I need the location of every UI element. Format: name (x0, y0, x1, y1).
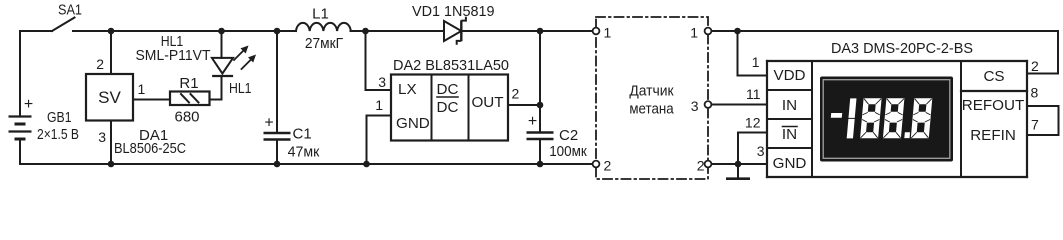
svg-text:1: 1 (138, 81, 146, 97)
svg-text:DC: DC (437, 81, 459, 98)
svg-text:DA2 BL8531LA50: DA2 BL8531LA50 (393, 57, 509, 74)
svg-text:GB1: GB1 (47, 109, 72, 126)
display digit 8 (second) (883, 98, 904, 138)
wire: top rail from L1 to VD1 anode (351, 30, 445, 32)
LED HL1 (221, 31, 223, 58)
svg-text:DA3 DMS-20PC-2-BS: DA3 DMS-20PC-2-BS (831, 40, 973, 57)
svg-text:HL1: HL1 (229, 80, 252, 97)
wire: sensor pin2 right to GND pin 3 (712, 163, 768, 165)
inductor L1 (296, 23, 351, 31)
wire: DA3 top edge and CS loop (738, 31, 1059, 74)
svg-text:2×1.5 В: 2×1.5 В (37, 126, 79, 143)
svg-text:+: + (24, 96, 33, 113)
node: LED junction on top rail (218, 28, 225, 35)
IC DA1 box (86, 74, 133, 121)
wire: GND pin 1 of DA2 down to bottom rail (367, 116, 392, 165)
svg-text:12: 12 (745, 115, 761, 131)
svg-text:11: 11 (746, 86, 761, 102)
switch SA1 blade (52, 18, 75, 32)
DA3 left pin cell dividers (767, 89, 812, 91)
IC DA2 box (391, 75, 508, 141)
wire: sensor pin1 right to DA3 (712, 30, 738, 32)
svg-text:метана: метана (629, 101, 674, 118)
7-seg digits -188.8 (829, 98, 932, 138)
svg-text:2: 2 (1031, 58, 1039, 74)
display digit 1 (848, 98, 856, 118)
DC/DC fraction line (437, 96, 458, 98)
svg-text:1: 1 (690, 25, 698, 41)
node: junction top rail at DA2 LX column (362, 28, 369, 35)
display minus sign (831, 113, 842, 118)
resistor R1 power marks (181, 94, 189, 103)
sensor terminal 1 left (593, 28, 600, 35)
node: OUT junction (537, 102, 544, 109)
svg-text:VD1 1N5819: VD1 1N5819 (412, 3, 495, 20)
capacitor C2 (539, 31, 541, 132)
wire: DA2 OUT pin 2 to C2 node (508, 104, 540, 106)
capacitor C1 (276, 31, 278, 132)
svg-text:SA1: SA1 (58, 2, 82, 19)
diode VD1 (Schottky) (444, 21, 461, 41)
sensor terminal 3 right (705, 101, 712, 108)
svg-text:LX: LX (398, 81, 417, 98)
svg-text:IN: IN (782, 126, 797, 143)
IN-bar overline (783, 126, 798, 128)
svg-text:DC: DC (437, 99, 459, 116)
LED emission arrows (234, 46, 256, 70)
node: ground junction (735, 161, 742, 168)
svg-text:3: 3 (757, 143, 765, 159)
ground symbol (737, 164, 739, 178)
svg-text:GND: GND (396, 115, 430, 132)
svg-text:+: + (264, 115, 273, 132)
svg-text:1: 1 (752, 54, 760, 70)
node: junction VDD/CS feed (734, 28, 741, 35)
svg-text:2: 2 (604, 158, 612, 174)
wire: IN-bar pin 12 (738, 133, 767, 165)
sensor terminal 2 right (705, 161, 712, 168)
svg-text:3: 3 (691, 98, 699, 114)
wire: R1 to LED cathode (210, 77, 222, 99)
svg-text:SML-P11VT: SML-P11VT (136, 47, 211, 64)
wire: DA1 pin 3 vertical (110, 121, 112, 165)
wire: LX vertical from top rail (366, 31, 392, 90)
svg-text:680: 680 (174, 109, 199, 126)
node: DA1 pin2 junction on top rail (108, 28, 115, 35)
DA3 CS cell divider (961, 90, 1027, 92)
svg-text:1: 1 (604, 25, 612, 41)
wire: bottom rail from battery to sensor terminal 2 (20, 163, 593, 165)
methane sensor dashed box (596, 17, 708, 179)
svg-text:3: 3 (378, 74, 386, 90)
svg-text:SV: SV (98, 88, 121, 107)
wire: VDD pin 1 (738, 31, 768, 76)
display digit 8 (third) (911, 98, 932, 138)
node: DA1 pin3 junction on bottom rail (108, 161, 115, 168)
svg-text:2: 2 (96, 56, 104, 72)
svg-text:C2: C2 (559, 127, 578, 144)
wire: top rail left segment to switch (20, 30, 52, 32)
svg-text:CS: CS (983, 68, 1004, 85)
wire: REFOUT pin 8 loop to REFIN pin 7 (1027, 106, 1059, 135)
svg-text:GND: GND (773, 155, 807, 172)
svg-text:R1: R1 (179, 75, 198, 92)
display digit 8 (first) (860, 98, 881, 138)
svg-text:47мк: 47мк (288, 144, 320, 161)
svg-text:L1: L1 (312, 6, 329, 23)
svg-text:3: 3 (98, 129, 106, 145)
svg-text:IN: IN (782, 97, 797, 114)
svg-text:OUT: OUT (471, 94, 503, 111)
7-segment display module (820, 77, 953, 162)
svg-text:27мкГ: 27мкГ (305, 35, 343, 52)
resistor R1 (170, 92, 210, 106)
svg-text:2: 2 (512, 86, 520, 102)
svg-text:C1: C1 (293, 126, 312, 143)
svg-text:REFOUT: REFOUT (962, 97, 1024, 114)
wire: top rail from switch to L1 (73, 30, 296, 32)
svg-text:Датчик: Датчик (629, 83, 674, 100)
svg-text:7: 7 (1031, 117, 1039, 133)
svg-text:1: 1 (375, 97, 383, 113)
wire: IN pin 11 from sensor pin 3 (712, 104, 768, 106)
wire: top rail from VD1 cathode to sensor terminal 1 (462, 30, 593, 32)
svg-text:REFIN: REFIN (970, 127, 1016, 144)
wire: left vertical from battery to bottom rail (19, 140, 21, 165)
sensor terminal 1 right (705, 28, 712, 35)
svg-text:2: 2 (697, 158, 705, 174)
IC DA3 outline (767, 60, 1027, 62)
display decimal point (904, 132, 910, 138)
svg-text:100мк: 100мк (549, 143, 587, 160)
sensor terminal 2 left (593, 161, 600, 168)
svg-text:BL8506-25C: BL8506-25C (114, 140, 186, 157)
wire: DA1 pin 2 vertical (110, 31, 112, 74)
battery GB1 plates (9, 117, 32, 140)
svg-text:8: 8 (1031, 85, 1039, 101)
svg-text:+: + (528, 113, 537, 130)
svg-text:VDD: VDD (773, 67, 805, 84)
wire: left vertical from top rail to battery (19, 31, 21, 116)
wire: DA1 pin 1 to R1 (133, 99, 170, 101)
